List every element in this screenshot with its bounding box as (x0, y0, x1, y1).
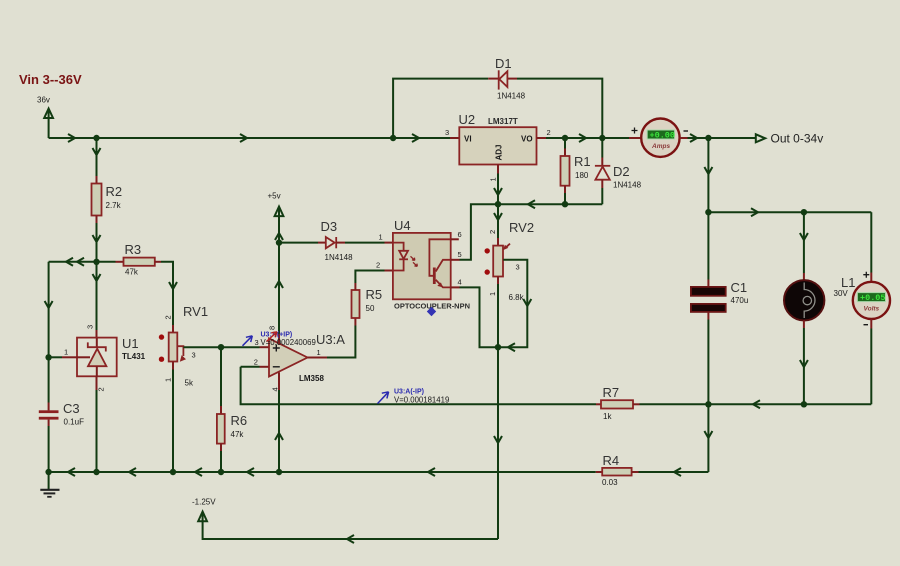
svg-text:1: 1 (379, 233, 383, 242)
resistor R4 (596, 453, 709, 487)
wire bottom -1.25V rail (203, 522, 498, 539)
wire arrow down x708 y437 (704, 431, 712, 438)
svg-text:50: 50 (366, 304, 375, 313)
node junction bus-opamp pin4 (276, 469, 282, 475)
svg-text:2: 2 (376, 261, 380, 270)
node junction R1 bottom (562, 201, 568, 207)
node junction D2 top (599, 135, 605, 141)
node junction lamp top (801, 209, 807, 215)
capacitor C3 (39, 401, 84, 472)
svg-text:U4: U4 (394, 218, 411, 233)
wire arrow left bus x250 (247, 468, 254, 476)
diode D1 (393, 56, 602, 138)
wire arrow left bus x431 (428, 468, 435, 476)
svg-text:1: 1 (489, 177, 498, 181)
optocoupler U4 (376, 218, 470, 311)
svg-text:R5: R5 (366, 287, 383, 302)
wire arrow up +5v x279 y233 (275, 233, 283, 240)
svg-text:+0.00: +0.00 (650, 131, 676, 141)
resistor R2 (92, 138, 123, 262)
wire ammeter to out terminal (688, 137, 756, 139)
svg-text:U2: U2 (459, 112, 476, 127)
node junction ADJ rail (495, 201, 501, 207)
wire arrow down x498 y443 (494, 436, 502, 443)
wire arrow left bus x71 (68, 468, 75, 476)
power terminal 36v (37, 96, 53, 139)
svg-text:5: 5 (458, 250, 462, 259)
node junction left loop (93, 259, 99, 265)
wire opto pin5 to ADJ rail (460, 204, 603, 260)
node junction D3 branch (276, 239, 282, 245)
svg-text:1: 1 (317, 348, 321, 357)
svg-text:3: 3 (86, 325, 95, 329)
wire arrow left x70 (66, 258, 73, 266)
probe U3:A(+IP) (243, 331, 316, 347)
node junction bus-U1 (93, 469, 99, 475)
wire arrow left RV2 bottom (508, 343, 515, 351)
potentiometer RV1 (159, 304, 260, 472)
terminal Out 0-34v (756, 132, 823, 146)
svg-text:8: 8 (268, 326, 277, 330)
svg-text:3: 3 (516, 263, 520, 272)
svg-text:30V: 30V (834, 289, 849, 298)
node junction RV2 bottom (495, 344, 501, 350)
svg-text:D1: D1 (495, 56, 512, 71)
svg-text:R4: R4 (603, 453, 620, 468)
resistor R6 (217, 347, 247, 472)
svg-text:2: 2 (488, 230, 497, 234)
wire arrow down R2 bottom (93, 235, 101, 242)
svg-text:TL431: TL431 (122, 352, 146, 361)
svg-text:RV1: RV1 (183, 304, 208, 319)
svg-text:0.03: 0.03 (602, 478, 618, 487)
node junction R2 top (93, 135, 99, 141)
node junction out mid (705, 209, 711, 215)
power terminal +5v (268, 192, 284, 335)
resistor R1 (561, 138, 591, 204)
svg-text:2: 2 (547, 128, 551, 137)
svg-text:V=0.000181419: V=0.000181419 (394, 395, 449, 404)
svg-text:1N4148: 1N4148 (325, 253, 354, 262)
svg-text:2: 2 (97, 387, 106, 391)
wire arrow left x756 y404 (753, 400, 760, 408)
svg-text:D3: D3 (321, 219, 338, 234)
svg-text:36v: 36v (37, 96, 50, 105)
marker blue diamond (427, 307, 436, 317)
probe U3:A(-IP) (378, 388, 450, 404)
svg-text:3: 3 (255, 338, 259, 347)
node junction D1 left (390, 135, 396, 141)
wire opamp -in feedback (241, 367, 596, 405)
svg-text:+5v: +5v (268, 192, 281, 201)
svg-text:C3: C3 (63, 401, 80, 416)
wire arrow left bus x198 (195, 468, 202, 476)
wire arrow left bus x677 (674, 468, 681, 476)
node junction U1 pin1 (45, 354, 51, 360)
wire opto pin4 down (460, 287, 499, 347)
svg-text:47k: 47k (231, 430, 245, 439)
node junction lamp bottom (801, 401, 807, 407)
wire opamp output to R5 (327, 326, 355, 358)
svg-text:Volts: Volts (864, 306, 880, 313)
svg-text:LM317T: LM317T (488, 117, 518, 126)
wire arrow down ADJ (494, 188, 502, 195)
svg-text:5k: 5k (185, 379, 194, 388)
svg-text:4: 4 (458, 278, 462, 287)
svg-text:R2: R2 (106, 184, 123, 199)
svg-text:470u: 470u (731, 296, 749, 305)
voltmeter (853, 212, 890, 404)
diode D3 (279, 219, 393, 262)
svg-text:1: 1 (488, 292, 497, 296)
svg-text:R3: R3 (125, 242, 142, 257)
svg-text:2: 2 (164, 315, 173, 319)
node junction bus-C3 (45, 469, 51, 475)
wire arrow left bus x132 (129, 468, 136, 476)
svg-text:U3:A: U3:A (316, 332, 345, 347)
wire left loop horizontal (49, 261, 97, 263)
wire arrow right x695 (690, 134, 697, 142)
wire VO to ammeter (546, 137, 629, 139)
svg-text:L1: L1 (841, 275, 855, 290)
svg-text:6: 6 (458, 230, 462, 239)
wire output node down (707, 138, 709, 212)
wire arrow right x757 y212 (751, 208, 758, 216)
wire arrow right x418 (412, 134, 419, 142)
wire arrow down x708 y173 (704, 167, 712, 174)
wire R7 node down (707, 404, 709, 472)
svg-text:ADJ: ADJ (495, 144, 504, 160)
op-amp U3:A LM358 (241, 326, 346, 472)
svg-text:3: 3 (192, 351, 196, 360)
svg-text:Amps: Amps (651, 143, 670, 150)
wire arrow up +5v y281 (275, 281, 283, 288)
svg-text:0.1uF: 0.1uF (64, 418, 85, 427)
resistor R5 (352, 271, 394, 326)
svg-text:+0.05: +0.05 (860, 293, 886, 303)
ammeter (629, 119, 688, 157)
wire arrow down R2 top (93, 148, 101, 155)
wire main top rail (49, 137, 450, 139)
wire arrow right x74 (68, 134, 75, 142)
svg-text:D2: D2 (613, 164, 630, 179)
wire arrow up opamp pin4 (275, 433, 283, 440)
svg-text:VI: VI (464, 135, 472, 144)
svg-text:1: 1 (164, 378, 173, 382)
svg-text:C1: C1 (731, 280, 748, 295)
svg-text:R7: R7 (603, 385, 620, 400)
resistor R7 (596, 385, 708, 421)
svg-text:Vin 3--36V: Vin 3--36V (19, 72, 82, 87)
svg-text:1k: 1k (603, 412, 612, 421)
svg-text:6.8k: 6.8k (509, 293, 525, 302)
node junction bus-RV1 (170, 469, 176, 475)
wire out mid rail (708, 211, 871, 213)
wire arrow down left rail (45, 301, 53, 308)
wire arrow left ADJ rail (528, 200, 535, 208)
power terminal -1.25V (192, 498, 216, 523)
svg-text:-1.25V: -1.25V (192, 498, 216, 507)
svg-text:3: 3 (445, 128, 449, 137)
svg-text:R6: R6 (231, 413, 248, 428)
svg-text:2.7k: 2.7k (106, 201, 122, 210)
svg-text:180: 180 (575, 171, 589, 180)
diode D2 (595, 138, 642, 204)
node junction bus-R6 (218, 469, 224, 475)
svg-text:R1: R1 (574, 154, 591, 169)
svg-text:RV2: RV2 (509, 220, 534, 235)
svg-text:1N4148: 1N4148 (497, 92, 526, 101)
ground (40, 472, 59, 497)
node junction R7 right (705, 401, 711, 407)
IC U1 TL431 (49, 262, 146, 472)
wire arrow left bottom rail (347, 535, 354, 543)
resistor R3 (97, 242, 174, 325)
svg-text:47k: 47k (125, 268, 139, 277)
ground bus (49, 471, 596, 473)
svg-text:2: 2 (254, 358, 258, 367)
svg-text:VO: VO (521, 135, 533, 144)
svg-text:Out 0-34v: Out 0-34v (771, 132, 824, 146)
wire arrow right x585 (579, 134, 586, 142)
wire arrow down RV1 top (169, 282, 177, 289)
wire left rail vertical (48, 262, 50, 403)
svg-text:LM358: LM358 (299, 374, 324, 383)
potentiometer RV2 (485, 204, 535, 539)
wire arrow down RV2 pin3 (523, 299, 531, 306)
svg-text:1N4148: 1N4148 (613, 181, 642, 190)
capacitor C1 (691, 212, 748, 404)
node junction RV1 wiper / R6 (218, 344, 224, 350)
wire arrow left x80 (77, 258, 84, 266)
svg-text:1: 1 (64, 348, 68, 357)
wire arrow right x246 (240, 134, 247, 142)
svg-text:4: 4 (271, 387, 280, 391)
lamp L1 (784, 212, 855, 404)
node junction output (705, 135, 711, 141)
regulator U2 LM317T (445, 112, 551, 204)
node junction R1 top (562, 135, 568, 141)
wire out bottom rail (708, 403, 871, 405)
svg-text:U1: U1 (122, 336, 139, 351)
